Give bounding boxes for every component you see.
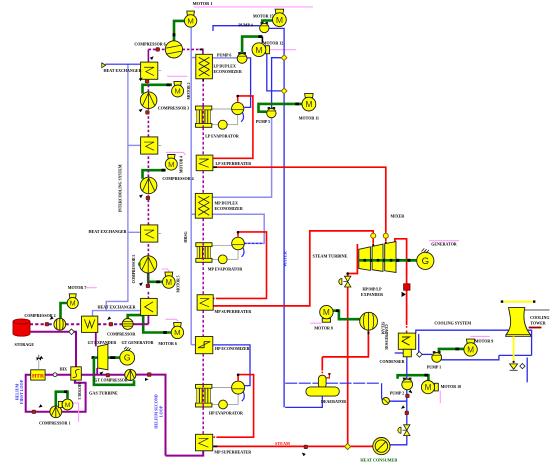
GT generator G — [120, 350, 135, 365]
tower outlet funnel (yellow) — [513, 336, 515, 362]
wire shaft compressor1 - motor (green) — [56, 392, 68, 407]
steam compressor — [360, 312, 378, 330]
wire turbine extraction to condenser (red) — [395, 239, 407, 325]
wire condensate to pump2 (blue) — [406, 357, 408, 379]
junction red square compressor4 outlet — [146, 196, 149, 199]
wire turbine shaft to generator (green) — [359, 259, 417, 262]
HRSG: MP evaporator — [212, 245, 233, 247]
wire tower basin (blue) — [499, 354, 532, 356]
wire feedwater pump4 suction (blue) — [213, 26, 260, 31]
svg-text:MOTOR 7: MOTOR 7 — [68, 285, 86, 290]
svg-text:COMPRESSOR: COMPRESSOR — [107, 331, 135, 336]
cooling tower — [506, 308, 531, 337]
pump P5 — [268, 107, 271, 109]
wire helium storage main line (purple dashed) — [30, 323, 46, 325]
junction red square main hx outlet — [109, 323, 112, 326]
wire shaft GT expander - GT compressor loop (green) — [94, 358, 134, 385]
svg-text:ECONOMIZER: ECONOMIZER — [215, 206, 243, 211]
compressor C3 — [140, 92, 157, 109]
wire water header down to deaerator loop (blue) — [283, 94, 285, 408]
wire compressor1 to IHX cold return (purple) — [62, 380, 86, 412]
svg-text:DEAERATOR: DEAERATOR — [321, 399, 346, 404]
motor M5 — [165, 272, 173, 276]
svg-text:M: M — [467, 344, 474, 354]
wire electrical motor6 (pink) — [166, 319, 179, 321]
svg-text:STEAM: STEAM — [275, 441, 290, 446]
condenser — [398, 333, 415, 349]
motor M8 — [322, 319, 330, 323]
svg-text:M: M — [70, 301, 76, 308]
wire shaft compressor5 - motor5 (green) — [148, 273, 162, 282]
compressor C6 — [165, 41, 182, 58]
svg-text:MP SUPERHEATER: MP SUPERHEATER — [214, 449, 251, 454]
node white diamond condenser outlet — [417, 352, 423, 358]
svg-text:FIRST LOOP: FIRST LOOP — [19, 379, 24, 404]
svg-text:MOTOR 1: MOTOR 1 — [193, 1, 213, 6]
svg-text:HEAT EXCHANGER: HEAT EXCHANGER — [104, 68, 142, 73]
node yellow diamond water header 2 — [281, 88, 287, 94]
generator — [417, 252, 434, 269]
svg-text:GT COMPRESSOR: GT COMPRESSOR — [94, 379, 127, 383]
junction red square storage line — [45, 323, 48, 326]
wire GT expander exhaust drop (purple) — [96, 368, 98, 375]
compressor C5 — [140, 256, 157, 273]
svg-text:COMPRESSOR 3: COMPRESSOR 3 — [158, 105, 189, 110]
node white diamond tower makeup — [520, 364, 525, 369]
svg-text:MOTOR 2: MOTOR 2 — [187, 82, 191, 99]
svg-text:STORAGE: STORAGE — [15, 342, 35, 347]
isolation square on condenser line — [404, 284, 410, 290]
svg-text:M: M — [425, 383, 432, 392]
wire shaft motor11 - pump5 (green) — [259, 104, 303, 112]
wire pump5 discharge to MP duplex economizer (blue) — [213, 118, 272, 198]
compressor C4 — [140, 177, 157, 194]
wire electrical motor8 (pink) — [310, 322, 322, 324]
svg-text:MOTOR 12: MOTOR 12 — [263, 41, 283, 46]
heat consumer — [373, 438, 390, 455]
svg-text:STEAM TURBINE: STEAM TURBINE — [313, 253, 348, 258]
valve on consumer line — [398, 427, 401, 433]
junction red square GT compressor inlet — [106, 374, 109, 377]
wire electrical compressor1 motor (pink) — [73, 403, 79, 422]
svg-text:M: M — [187, 17, 193, 26]
wire control valve to deaerator tee (red) — [347, 286, 349, 357]
junction red square compressor3 outlet — [146, 111, 149, 114]
wire compressor6 to HRSG inlet (purple dashed) — [182, 48, 203, 50]
wire LP steam drum to superheater (red) — [213, 96, 253, 158]
wire electrical motor10 (pink) — [439, 391, 441, 404]
control valve (turbine bypass) — [339, 279, 342, 285]
wire feedwater main periwinkle riser — [190, 27, 192, 345]
wire shaft motor8 - steam compressor (green) — [333, 311, 360, 320]
svg-text:TOWER: TOWER — [530, 320, 545, 325]
HRSG: MP superheater — [197, 295, 213, 311]
svg-text:HP ECONOMIZER: HP ECONOMIZER — [215, 346, 250, 351]
motor M9 — [466, 339, 474, 343]
intercooler heat exchanger 1 — [141, 62, 158, 79]
wire shaft pump4 - motor15 (green) — [262, 21, 272, 27]
steam turbine section 3 — [385, 242, 396, 273]
node white diamond storage branch — [69, 329, 75, 335]
svg-text:LOOP: LOOP — [158, 405, 163, 417]
HTR relief valve — [38, 360, 40, 370]
turbine inlet valve A — [371, 233, 376, 238]
tower top rail (yellow) — [502, 301, 534, 303]
svg-text:ECONOMIZER: ECONOMIZER — [214, 69, 242, 74]
svg-text:MP EVAPORATOR: MP EVAPORATOR — [208, 267, 243, 272]
svg-text:MP SUPERHEATER: MP SUPERHEATER — [215, 309, 252, 314]
svg-text:STEAM: STEAM — [380, 322, 384, 335]
wire shaft GT expander - GT generator (green) — [92, 356, 98, 359]
svg-text:MIXER: MIXER — [391, 213, 405, 218]
storage tank — [13, 322, 30, 337]
small circulation pump — [382, 397, 389, 404]
wire IHX to GT compressor (purple) — [81, 374, 125, 376]
svg-text:LP EVAPORATOR: LP EVAPORATOR — [205, 133, 239, 138]
HRSG: MP duplex economizer — [195, 193, 212, 218]
wire tee to deaerator dome (red) — [322, 356, 347, 358]
svg-text:HTR: HTR — [32, 374, 45, 380]
svg-text:HRSG: HRSG — [183, 231, 188, 242]
wire pump6 suction from LP economizer (blue) — [212, 57, 237, 59]
svg-text:COMPRESSOR 5: COMPRESSOR 5 — [132, 254, 136, 283]
wire steam compressor discharge to deaerator line (red) — [349, 330, 369, 357]
svg-text:MOTOR 8: MOTOR 8 — [314, 326, 332, 331]
svg-text:MOTOR 15: MOTOR 15 — [253, 14, 273, 19]
wire HP economizer inlet stub (periwinkle) — [191, 344, 196, 346]
motor M3 (compressor 1 motor) — [58, 401, 62, 407]
motor M2 — [174, 81, 181, 85]
svg-text:GT EXPANDER: GT EXPANDER — [88, 340, 117, 345]
deaerator — [321, 375, 323, 377]
wire electrical motor9 (pink) — [471, 335, 490, 337]
wire deaerator tee down to steam line (red) — [347, 357, 349, 444]
wire electrical motor4 (pink) — [166, 152, 186, 155]
wire heat-exchanger source line (blue) — [105, 63, 141, 65]
wire shaft pump2 - motor10 (green) — [398, 375, 429, 380]
wire HRSG outlet to helium return (purple) — [166, 451, 204, 456]
svg-text:HEAT EXCHANGER: HEAT EXCHANGER — [98, 305, 136, 310]
wire deaerator vent hook (red) — [326, 374, 329, 378]
wire pump2 down to consumer valve (blue) — [406, 401, 408, 424]
wire tower makeup (blue) — [526, 358, 528, 383]
motor M6 — [174, 323, 182, 327]
HRSG: LP evaporator — [212, 108, 233, 110]
IHX heat exchanger — [71, 367, 82, 380]
junction red square compressor5 outlet — [146, 284, 149, 287]
wire shaft compressor - motor6 (green) — [128, 315, 172, 332]
svg-text:G: G — [124, 353, 131, 363]
junction red square helium second loop — [147, 373, 151, 377]
node yellow diamond steam line — [345, 443, 351, 449]
svg-text:MOTOR 6: MOTOR 6 — [158, 341, 176, 346]
intercooler heat exchanger 4 — [141, 298, 158, 315]
junction red square pump2 discharge — [406, 394, 409, 397]
wire shaft compressor6 - motor1 (green) — [174, 21, 185, 41]
svg-text:PUMP 1: PUMP 1 — [427, 365, 441, 370]
svg-text:GENERATOR: GENERATOR — [431, 242, 457, 247]
svg-text:M: M — [166, 278, 173, 287]
svg-text:PUMP 5: PUMP 5 — [256, 119, 270, 124]
wire shaft pump6 - motor12 (green) — [242, 37, 262, 54]
svg-text:GT GENERATOR: GT GENERATOR — [121, 340, 153, 345]
svg-text:COMPRESSOR 2: COMPRESSOR 2 — [24, 313, 55, 318]
motor M1 — [187, 11, 195, 15]
svg-text:HP EVAPORATOR: HP EVAPORATOR — [209, 410, 243, 415]
wire condensate stub (blue) — [395, 352, 404, 354]
HRSG: LP duplex economizer — [196, 54, 213, 79]
pump P4 — [261, 22, 264, 24]
GT expander — [98, 344, 108, 370]
wire shaft compressor4 - motor4 (green) — [143, 170, 166, 179]
steam turbine section 2 — [372, 244, 383, 271]
wire periwinkle stub into LP duplex economizer — [191, 57, 196, 59]
turbine inlet valve B — [383, 233, 388, 238]
wire steam line diamond to heat consumer (red) — [350, 445, 373, 447]
HRSG gas path overlay on evaporators (purple dashed) — [202, 106, 204, 127]
junction red square HX1 outlet — [145, 80, 148, 83]
svg-text:HEAT CONSUMER: HEAT CONSUMER — [360, 458, 398, 463]
node yellow diamond water header 1 — [281, 55, 287, 61]
wire feedwater pump4 discharge to header (blue) — [269, 28, 284, 55]
motor M7 — [69, 294, 76, 298]
pump P2 — [403, 378, 406, 380]
svg-text:LP DUPLEX: LP DUPLEX — [214, 63, 236, 68]
intercooler heat exchanger 2 — [141, 137, 158, 154]
wire shaft compressor2 - motor7 (green) — [61, 303, 67, 319]
svg-text:GAS TURBINE: GAS TURBINE — [89, 391, 118, 396]
wire MP steam drum to MP superheater (red) — [218, 232, 267, 299]
svg-text:MP DUPLEX: MP DUPLEX — [215, 201, 239, 206]
GT compressor — [125, 369, 136, 380]
tower drain line (maroon) — [529, 327, 542, 329]
wire electrical motor5 (pink) — [162, 269, 170, 272]
svg-text:HEAT EXCHANGER: HEAT EXCHANGER — [89, 229, 127, 234]
junction red square HTR inlet — [32, 410, 35, 413]
wire turbine section1 inlet via control valve (red) — [348, 244, 358, 278]
svg-text:G: G — [422, 256, 429, 267]
HRSG: HP economizer — [195, 337, 212, 354]
motor M10 — [434, 383, 438, 391]
wire pump2 recirculation (blue) — [390, 390, 407, 401]
svg-text:WATER: WATER — [283, 250, 288, 267]
heat exchanger source arrow — [102, 63, 106, 68]
wire condenser to circulating pump (blue) — [418, 334, 420, 352]
wire water line to heat consumer branch (blue dashed) — [285, 382, 379, 384]
junction red square steam line — [304, 445, 307, 448]
wire valve to heat consumer (blue) — [390, 436, 407, 445]
intercooler heat exchanger 3 — [141, 225, 158, 242]
svg-text:COMPRESSOR 4: COMPRESSOR 4 — [162, 176, 193, 181]
svg-text:M: M — [174, 87, 180, 96]
svg-text:MOTOR 10: MOTOR 10 — [441, 384, 461, 389]
svg-text:EXPANDER: EXPANDER — [361, 292, 383, 297]
svg-text:CONDENSER: CONDENSER — [379, 359, 404, 364]
wire electrical generator (pink) — [429, 240, 459, 242]
wire circulating pump to tower (blue) — [442, 355, 499, 359]
svg-text:M: M — [255, 45, 262, 55]
svg-text:MOTOR 4: MOTOR 4 — [179, 156, 183, 173]
svg-text:COMPRESSOR 6: COMPRESSOR 6 — [134, 41, 165, 46]
svg-text:M: M — [174, 328, 180, 337]
svg-text:MOTOR 9: MOTOR 9 — [475, 339, 493, 344]
wire HP economizer outlet to HP drum (blue) — [213, 345, 250, 386]
motor M4 — [168, 155, 175, 159]
wire cooling stub HX3 — [128, 231, 141, 233]
compressor (main line) — [122, 318, 133, 329]
svg-text:COMPRESSOR 1: COMPRESSOR 1 — [39, 421, 70, 426]
wire electrical motor7 (pink) — [86, 287, 97, 289]
HRSG: HP evaporator — [212, 386, 233, 388]
main-line heat exchanger (W) — [82, 316, 98, 332]
turbine shaft overlay (green) — [359, 259, 417, 262]
svg-text:M: M — [305, 99, 312, 109]
wire steam turbine mixer header (red) — [385, 238, 387, 241]
wire water header node1-node2 (blue) — [283, 60, 285, 88]
wire shaft pump1 - motor9 (green) — [439, 349, 464, 352]
HRSG: final MP superheater — [196, 434, 213, 451]
HRSG: LP superheater — [196, 155, 213, 171]
wire helium HX to GT expander (purple) — [95, 332, 97, 346]
svg-text:INTERCOOLING SYSTEM: INTERCOOLING SYSTEM — [119, 164, 123, 212]
wire helium second loop return (purple) — [151, 375, 165, 456]
svg-text:COMPRESSOR: COMPRESSOR — [384, 324, 388, 350]
steam turbine section 1 — [359, 247, 371, 271]
wire cooling stub HX2 — [128, 144, 141, 146]
tower side line (black) — [525, 309, 550, 311]
svg-text:MOTOR 5: MOTOR 5 — [177, 275, 181, 292]
motor M12 — [266, 46, 270, 54]
svg-text:PUMP 4: PUMP 4 — [238, 23, 252, 28]
compressor C1 — [50, 406, 62, 418]
motor M15 — [275, 9, 284, 13]
wire main STEAM line from final superheater (red) — [217, 445, 345, 447]
wire node2 branch from motor12 area (blue) — [267, 54, 282, 91]
wire electrical motor 12 (magenta) — [270, 49, 296, 51]
wire electrical motor2 (pink) — [167, 75, 187, 77]
wire MP drum inlet from economizer (blue dash) — [244, 242, 262, 244]
motor M11 — [305, 94, 314, 98]
pump P6 — [238, 52, 241, 54]
svg-text:HP/MP/LP: HP/MP/LP — [362, 286, 382, 291]
wire cooling stub HX4 — [106, 310, 140, 312]
wire HX1 to compressor6 (purple dashed) — [147, 49, 149, 62]
pump P1 — [433, 351, 436, 353]
node white circle — [53, 373, 57, 377]
wire pump6 discharge to LP drum (blue) — [244, 58, 250, 108]
junction red square compressor6 inlet — [156, 48, 159, 51]
wire LP superheater to mixer (red) — [213, 167, 386, 233]
wire deaerator drain loop (blue) — [285, 396, 322, 408]
wire cooling water to intercoolers (blue) — [93, 64, 128, 316]
svg-text:M: M — [323, 307, 330, 317]
svg-text:M: M — [65, 402, 71, 409]
wire shaft compressor3 - motor2 (green) — [143, 85, 173, 94]
svg-text:M: M — [276, 15, 283, 25]
wire MP duplex economizer outlet to MP drum (periwinkle) — [191, 214, 264, 243]
wire helium storage to IHX (purple) — [30, 332, 76, 367]
svg-text:PUMP 2: PUMP 2 — [390, 390, 404, 395]
svg-text:COOLING SYSTEM: COOLING SYSTEM — [434, 320, 471, 325]
junction red square consumer line — [405, 411, 408, 414]
wire HTR to IHX (purple) — [45, 374, 71, 376]
svg-text:M: M — [168, 160, 174, 169]
wire HTR loop left (purple) — [26, 375, 50, 412]
wire MP superheater to steam turbine (red) — [213, 231, 373, 306]
svg-text:PUMP 6: PUMP 6 — [217, 52, 231, 57]
svg-text:IHX: IHX — [60, 366, 68, 371]
HTR reactor — [31, 370, 45, 380]
svg-text:MOTOR 11: MOTOR 11 — [299, 116, 319, 121]
wire helium intercool chain riser (purple dashed) — [147, 315, 149, 324]
wire electrical bus motor 1 (magenta) — [194, 6, 313, 8]
wire HRSG gas path (purple dashed vertical) — [202, 79, 204, 106]
svg-text:MOTOR 3: MOTOR 3 — [77, 382, 81, 399]
compressor C2 — [54, 318, 66, 330]
svg-text:LP SUPERHEATER: LP SUPERHEATER — [216, 161, 252, 166]
svg-text:COOLING: COOLING — [530, 315, 549, 320]
wire condenser cooling supply (blue) — [416, 330, 532, 355]
wire HP steam drum to final superheater (red) — [218, 375, 254, 438]
wire node1 branch to pump5 (blue) — [272, 58, 282, 109]
